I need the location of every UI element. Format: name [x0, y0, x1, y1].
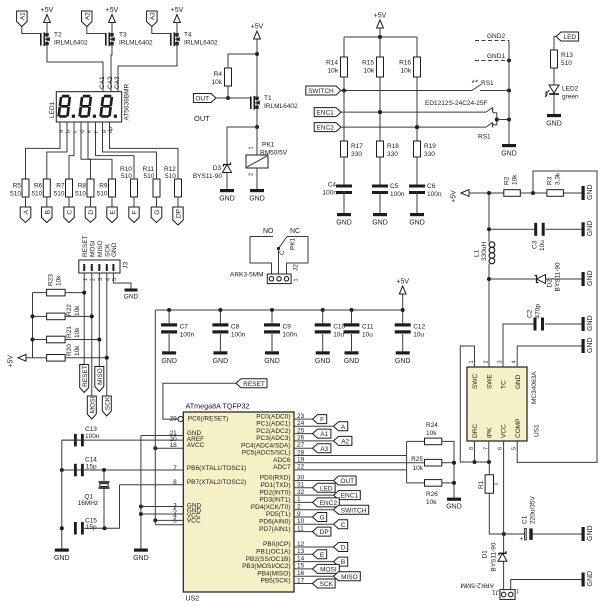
- svg-text:A1: A1: [320, 431, 328, 438]
- svg-text:GND: GND: [587, 315, 594, 331]
- svg-text:B: B: [44, 210, 51, 214]
- svg-text:1: 1: [494, 482, 500, 485]
- svg-text:29: 29: [170, 415, 178, 422]
- svg-text:1: 1: [249, 146, 255, 149]
- svg-text:GND: GND: [124, 294, 139, 301]
- svg-text:15p: 15p: [86, 524, 97, 531]
- svg-text:R8: R8: [78, 183, 87, 190]
- svg-text:+5V: +5V: [374, 13, 387, 20]
- svg-text:PD3(INT1): PD3(INT1): [259, 497, 290, 504]
- svg-text:F: F: [132, 210, 139, 214]
- svg-text:GND: GND: [219, 196, 235, 203]
- svg-text:PC0(ADC0): PC0(ADC0): [256, 413, 290, 420]
- svg-text:PD4(XCK/T0): PD4(XCK/T0): [251, 504, 291, 511]
- svg-text:MISO: MISO: [97, 368, 104, 385]
- svg-text:GND: GND: [264, 358, 280, 365]
- svg-text:C5: C5: [390, 183, 399, 190]
- svg-text:NC: NC: [290, 228, 300, 235]
- svg-text:US2: US2: [186, 596, 200, 603]
- svg-text:C6: C6: [427, 183, 436, 190]
- svg-text:A2: A2: [341, 439, 349, 446]
- svg-text:510: 510: [144, 173, 155, 180]
- svg-text:F: F: [320, 417, 324, 424]
- svg-text:DP: DP: [176, 209, 183, 218]
- svg-text:100n: 100n: [427, 191, 442, 198]
- svg-text:510: 510: [75, 191, 86, 198]
- svg-text:T1: T1: [264, 95, 272, 102]
- svg-text:b: b: [66, 130, 72, 133]
- svg-text:PB6(XTAL1/TOSC1): PB6(XTAL1/TOSC1): [187, 465, 246, 472]
- svg-text:10k: 10k: [74, 327, 81, 338]
- svg-text:R2: R2: [504, 176, 511, 185]
- svg-text:10k: 10k: [56, 275, 63, 286]
- svg-text:R14: R14: [326, 60, 338, 67]
- svg-text:E: E: [320, 552, 325, 559]
- svg-text:+5V: +5V: [251, 24, 264, 31]
- svg-text:J2: J2: [293, 264, 300, 271]
- svg-text:GND2: GND2: [487, 33, 505, 40]
- svg-text:GND: GND: [372, 220, 388, 227]
- svg-text:R18: R18: [387, 143, 399, 150]
- svg-text:R7: R7: [56, 183, 65, 190]
- svg-text:GND: GND: [587, 270, 594, 286]
- svg-text:GND: GND: [515, 374, 522, 389]
- svg-text:T2: T2: [54, 32, 62, 39]
- svg-text:10k: 10k: [512, 174, 519, 185]
- svg-text:C3: C3: [532, 240, 539, 249]
- svg-text:510: 510: [10, 191, 21, 198]
- svg-text:PD0(RXD): PD0(RXD): [260, 475, 291, 482]
- svg-text:GND: GND: [395, 358, 411, 365]
- svg-text:D1: D1: [482, 550, 489, 559]
- svg-text:C12: C12: [413, 324, 425, 331]
- svg-text:PC3(ADC3): PC3(ADC3): [256, 435, 290, 442]
- svg-text:MOSI: MOSI: [89, 240, 96, 257]
- svg-text:10u: 10u: [333, 332, 344, 339]
- svg-text:D2: D2: [547, 279, 554, 288]
- svg-text:RS1: RS1: [481, 80, 494, 87]
- svg-text:GND: GND: [336, 220, 352, 227]
- svg-text:C8: C8: [231, 324, 240, 331]
- svg-text:L1: L1: [474, 249, 481, 257]
- svg-text:ATmega8A TQFP32: ATmega8A TQFP32: [186, 402, 250, 411]
- svg-text:NO: NO: [263, 228, 274, 235]
- svg-text:GND: GND: [54, 555, 70, 562]
- svg-text:10k: 10k: [328, 68, 339, 75]
- svg-text:R6: R6: [34, 183, 43, 190]
- svg-text:C11: C11: [362, 324, 374, 331]
- svg-text:330uH: 330uH: [481, 242, 488, 261]
- svg-text:R20: R20: [66, 344, 73, 356]
- svg-text:PB5(SCK): PB5(SCK): [261, 578, 291, 585]
- svg-text:T4: T4: [184, 32, 192, 39]
- svg-text:PB0(ICP): PB0(ICP): [263, 541, 290, 548]
- svg-text:PB1(OC1A): PB1(OC1A): [256, 549, 290, 556]
- svg-text:C: C: [67, 210, 74, 215]
- svg-text:2: 2: [483, 360, 489, 363]
- svg-text:c: c: [73, 130, 79, 133]
- svg-text:GND: GND: [501, 151, 517, 158]
- svg-text:RS1: RS1: [478, 134, 491, 141]
- svg-text:COMP: COMP: [515, 419, 522, 439]
- svg-text:R23: R23: [48, 274, 55, 286]
- svg-text:MOSI: MOSI: [320, 567, 337, 574]
- svg-text:+5V: +5V: [171, 7, 184, 14]
- svg-text:100n: 100n: [85, 433, 100, 440]
- svg-text:GND: GND: [587, 221, 594, 237]
- svg-text:+5V: +5V: [8, 355, 15, 368]
- svg-text:R21: R21: [66, 326, 73, 338]
- svg-text:IRLML6402: IRLML6402: [264, 103, 298, 110]
- svg-text:GND: GND: [344, 358, 360, 365]
- svg-text:OUT: OUT: [194, 114, 210, 123]
- svg-text:510: 510: [165, 173, 176, 180]
- svg-text:RESET: RESET: [82, 235, 89, 257]
- svg-text:PC2(ADC2): PC2(ADC2): [256, 428, 290, 435]
- svg-text:R13: R13: [561, 52, 573, 59]
- svg-text:C: C: [341, 522, 346, 529]
- svg-text:MOSI: MOSI: [89, 397, 96, 414]
- svg-text:PD1(TXD): PD1(TXD): [261, 482, 291, 489]
- svg-text:GND: GND: [587, 525, 594, 541]
- svg-text:GND: GND: [587, 571, 594, 587]
- svg-text:1: 1: [294, 278, 300, 281]
- svg-text:MISO: MISO: [341, 574, 358, 581]
- svg-text:green: green: [562, 94, 579, 101]
- svg-text:RM50/5V: RM50/5V: [260, 150, 288, 157]
- svg-text:VCC: VCC: [501, 424, 508, 438]
- svg-text:PB3(MOSI/OC2): PB3(MOSI/OC2): [242, 563, 290, 570]
- svg-text:GND1: GND1: [487, 53, 505, 60]
- svg-text:US1: US1: [534, 424, 541, 437]
- svg-text:PB2(SS/OC1B): PB2(SS/OC1B): [246, 556, 291, 563]
- svg-text:10k: 10k: [401, 68, 412, 75]
- svg-text:GND: GND: [161, 358, 177, 365]
- svg-text:PB7(XTAL2/TOSC2): PB7(XTAL2/TOSC2): [187, 479, 246, 486]
- svg-text:510: 510: [561, 60, 572, 67]
- svg-text:R16: R16: [399, 60, 411, 67]
- svg-text:10u: 10u: [362, 332, 373, 339]
- svg-text:10k: 10k: [426, 430, 437, 437]
- svg-text:R22: R22: [66, 304, 73, 316]
- svg-text:IRLML6402: IRLML6402: [119, 40, 153, 47]
- svg-text:100n: 100n: [283, 332, 298, 339]
- svg-text:e: e: [87, 130, 93, 133]
- svg-text:R5: R5: [13, 183, 22, 190]
- svg-text:470p: 470p: [535, 304, 542, 319]
- svg-text:GND: GND: [587, 184, 594, 200]
- svg-text:PC4(ADC4/SDA): PC4(ADC4/SDA): [241, 442, 290, 449]
- svg-text:DRC: DRC: [472, 424, 479, 438]
- svg-text:330: 330: [351, 151, 362, 158]
- svg-text:A1: A1: [19, 12, 26, 20]
- svg-text:CA1: CA1: [99, 76, 106, 89]
- svg-text:OUT: OUT: [195, 96, 209, 103]
- svg-text:ENC1: ENC1: [341, 493, 359, 500]
- svg-text:d: d: [80, 130, 86, 133]
- svg-text:BYS11-90: BYS11-90: [193, 173, 223, 180]
- svg-text:R17: R17: [351, 143, 363, 150]
- svg-text:D: D: [341, 545, 346, 552]
- svg-text:220u/35V: 220u/35V: [530, 496, 537, 524]
- svg-text:R12: R12: [164, 166, 176, 173]
- svg-text:+: +: [520, 536, 524, 543]
- svg-text:10u: 10u: [539, 240, 546, 251]
- svg-text:ENC2: ENC2: [316, 125, 334, 132]
- svg-text:BYS11-90: BYS11-90: [555, 262, 562, 292]
- svg-text:R19: R19: [424, 143, 436, 150]
- svg-text:10k: 10k: [74, 305, 81, 316]
- svg-text:PC5(ADC5/SCL): PC5(ADC5/SCL): [242, 450, 291, 457]
- svg-text:10k: 10k: [74, 345, 81, 356]
- svg-text:1: 1: [516, 588, 519, 594]
- svg-text:C2: C2: [527, 309, 534, 318]
- svg-text:SCK: SCK: [104, 396, 111, 410]
- svg-text:R15: R15: [362, 60, 374, 67]
- svg-text:ENC2: ENC2: [320, 500, 338, 507]
- svg-text:IPK: IPK: [486, 427, 493, 438]
- svg-text:AT5636BMR: AT5636BMR: [124, 83, 131, 120]
- svg-text:A: A: [341, 424, 346, 431]
- svg-text:PD6(AIN0): PD6(AIN0): [259, 519, 290, 526]
- svg-text:PK1: PK1: [262, 142, 275, 149]
- svg-text:PD2(INT0): PD2(INT0): [259, 489, 290, 496]
- svg-text:VCC: VCC: [187, 517, 201, 524]
- svg-text:15p: 15p: [86, 463, 97, 470]
- svg-text:C9: C9: [283, 324, 292, 331]
- svg-text:CA3: CA3: [114, 76, 121, 89]
- svg-text:B: B: [341, 559, 345, 566]
- svg-text:C1: C1: [522, 515, 529, 524]
- svg-text:RESET: RESET: [82, 365, 89, 387]
- svg-text:10u: 10u: [413, 332, 424, 339]
- svg-text:+5V: +5V: [451, 190, 458, 203]
- svg-text:PB4(MISO): PB4(MISO): [257, 570, 290, 577]
- svg-text:D: D: [88, 210, 95, 215]
- svg-text:LED: LED: [320, 485, 333, 492]
- svg-text:MC34063A: MC34063A: [531, 371, 538, 404]
- svg-text:ADC6: ADC6: [273, 457, 291, 464]
- svg-text:GND: GND: [315, 358, 331, 365]
- svg-text:CA2: CA2: [107, 76, 114, 89]
- svg-text:TC: TC: [501, 380, 508, 389]
- svg-text:10k: 10k: [413, 465, 424, 472]
- svg-text:510: 510: [97, 191, 108, 198]
- svg-text:SWITCH: SWITCH: [341, 507, 367, 514]
- svg-text:R11: R11: [143, 166, 155, 173]
- svg-text:ARK2-5MM: ARK2-5MM: [460, 581, 494, 588]
- svg-text:LED1: LED1: [49, 101, 56, 118]
- svg-text:g: g: [101, 130, 107, 133]
- svg-text:T3: T3: [119, 32, 127, 39]
- svg-text:R25: R25: [411, 456, 423, 463]
- svg-text:SWC: SWC: [472, 374, 479, 389]
- svg-text:GND: GND: [133, 555, 149, 562]
- svg-text:LED2: LED2: [562, 86, 579, 93]
- svg-text:A2: A2: [84, 12, 91, 20]
- svg-text:R10: R10: [120, 166, 132, 173]
- svg-text:GND: GND: [249, 196, 265, 203]
- svg-text:10k: 10k: [364, 68, 375, 75]
- svg-text:RESET: RESET: [243, 381, 265, 388]
- svg-text:GND: GND: [546, 121, 562, 128]
- svg-text:A3: A3: [320, 446, 328, 453]
- svg-text:IRLML6402: IRLML6402: [184, 40, 218, 47]
- svg-text:BYS11-90: BYS11-90: [490, 542, 497, 572]
- svg-text:R1: R1: [478, 480, 485, 489]
- svg-text:100n: 100n: [180, 332, 195, 339]
- svg-text:GND: GND: [587, 337, 594, 353]
- svg-text:E: E: [110, 209, 117, 214]
- svg-text:AVCC: AVCC: [187, 442, 205, 449]
- svg-text:R9: R9: [99, 183, 108, 190]
- svg-text:PK1: PK1: [290, 237, 297, 250]
- svg-text:A: A: [23, 209, 30, 214]
- svg-text:PD7(AIN1): PD7(AIN1): [259, 526, 290, 533]
- svg-text:330: 330: [424, 151, 435, 158]
- svg-text:100n: 100n: [231, 332, 246, 339]
- svg-text:ENC1: ENC1: [316, 110, 334, 117]
- svg-text:100n: 100n: [390, 191, 405, 198]
- svg-text:C: C: [279, 250, 286, 255]
- svg-text:GND: GND: [111, 242, 118, 257]
- svg-text:C13: C13: [85, 426, 97, 433]
- svg-text:ARK3-5MM: ARK3-5MM: [230, 271, 264, 278]
- svg-text:R24: R24: [426, 422, 438, 429]
- svg-text:R3: R3: [547, 176, 554, 185]
- svg-text:C7: C7: [180, 324, 189, 331]
- svg-text:ADC7: ADC7: [273, 464, 291, 471]
- svg-text:3,3k: 3,3k: [555, 172, 562, 185]
- svg-text:dp: dp: [108, 127, 114, 133]
- svg-text:DP: DP: [320, 529, 329, 536]
- svg-text:SCK: SCK: [320, 581, 334, 588]
- svg-text:GND: GND: [409, 220, 425, 227]
- svg-text:LED: LED: [563, 34, 576, 41]
- svg-text:100n: 100n: [323, 190, 338, 197]
- svg-text:10k: 10k: [426, 499, 437, 506]
- svg-text:R26: R26: [426, 491, 438, 498]
- svg-text:+5V: +5V: [106, 7, 119, 14]
- svg-text:OUT: OUT: [340, 478, 354, 485]
- svg-text:GND: GND: [213, 358, 229, 365]
- svg-text:PD5(T1): PD5(T1): [266, 511, 291, 518]
- svg-text:510: 510: [31, 191, 42, 198]
- svg-text:330: 330: [387, 151, 398, 158]
- svg-text:GND: GND: [446, 504, 462, 511]
- svg-text:7: 7: [173, 465, 177, 472]
- svg-text:C4: C4: [328, 182, 337, 189]
- svg-text:G: G: [154, 210, 161, 215]
- svg-text:+5V: +5V: [41, 7, 54, 14]
- svg-text:J3: J3: [122, 262, 129, 269]
- svg-text:510: 510: [121, 173, 132, 180]
- svg-text:D3: D3: [213, 165, 222, 172]
- svg-text:SWITCH: SWITCH: [308, 88, 334, 95]
- svg-text:G: G: [320, 515, 325, 522]
- svg-text:+5V: +5V: [396, 279, 409, 286]
- svg-text:10k: 10k: [212, 79, 223, 86]
- svg-text:IRLML6402: IRLML6402: [54, 40, 88, 47]
- svg-text:PC6(/RESET): PC6(/RESET): [188, 415, 228, 422]
- svg-text:SWE: SWE: [486, 374, 493, 389]
- svg-text:ED1212S-24C24-25F: ED1212S-24C24-25F: [425, 100, 488, 107]
- svg-text:2: 2: [249, 173, 255, 176]
- svg-text:510: 510: [54, 191, 65, 198]
- svg-text:PC1(ADC1): PC1(ADC1): [256, 421, 290, 428]
- svg-text:MISO: MISO: [97, 240, 104, 257]
- svg-text:A3: A3: [149, 12, 156, 20]
- svg-text:R4: R4: [214, 71, 223, 78]
- svg-text:J1: J1: [492, 589, 499, 596]
- svg-text:16MHz: 16MHz: [78, 500, 99, 507]
- svg-text:6: 6: [498, 447, 504, 450]
